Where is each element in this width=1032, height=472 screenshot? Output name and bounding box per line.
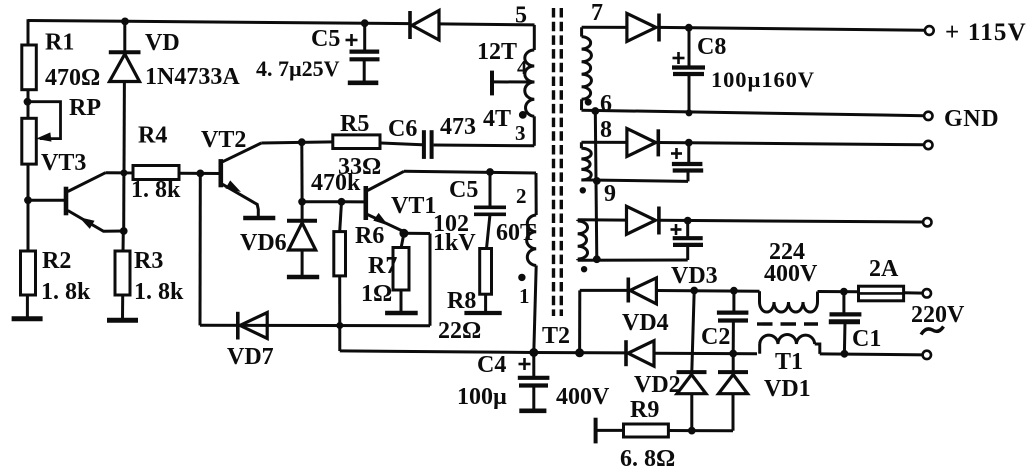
wire VD4 to choke <box>654 352 757 356</box>
wire VT2 base down to VD7 <box>199 173 202 325</box>
wire bottom rail <box>340 351 534 353</box>
potentiometer RP <box>22 118 37 164</box>
wire R6 bottom <box>338 276 341 351</box>
wire top rail left <box>28 21 410 24</box>
svg-text:VD2: VD2 <box>634 372 681 398</box>
capacitor C6 <box>422 130 426 159</box>
svg-text:1. 8k: 1. 8k <box>41 279 91 305</box>
wire VT3 collector to R4 <box>106 171 135 174</box>
choke T1 top winding <box>758 291 761 302</box>
plus C5 <box>346 39 358 42</box>
node top rail / C5 <box>361 20 368 27</box>
svg-text:12T: 12T <box>477 39 517 65</box>
svg-text:1N4733A: 1N4733A <box>145 64 240 90</box>
phase dot 4T <box>519 112 526 119</box>
svg-text:VD4: VD4 <box>622 310 669 336</box>
node R6 top <box>338 198 345 205</box>
svg-text:R7: R7 <box>368 253 397 279</box>
resistor R3 <box>122 231 125 253</box>
winding 12T <box>525 50 535 82</box>
svg-text:100µ: 100µ <box>457 384 507 410</box>
wire diode1 to +115V <box>659 27 925 30</box>
wire R4 to VT2 base <box>179 172 220 175</box>
wire VD7 line <box>200 324 430 327</box>
svg-text:T2: T2 <box>542 323 570 349</box>
wire left vertical top <box>27 19 30 46</box>
wire pin2 corner down <box>535 173 538 215</box>
wire R7 to ground <box>400 290 403 311</box>
resistor R1 <box>22 45 37 90</box>
svg-text:R5: R5 <box>340 111 369 137</box>
wire row2 return <box>581 180 688 182</box>
terminal 220V bottom <box>923 351 931 359</box>
winding 8-9 <box>580 142 583 148</box>
node VT3 base <box>25 197 32 204</box>
svg-text:C5: C5 <box>449 177 478 203</box>
svg-text:R4: R4 <box>138 123 167 149</box>
svg-text:1: 1 <box>519 284 530 308</box>
wire pin row3 top <box>578 218 627 221</box>
terminal out3 <box>923 218 931 226</box>
wire pin7 to diode <box>582 26 627 29</box>
svg-text:1. 8k: 1. 8k <box>131 177 181 203</box>
wire R9 rail right <box>692 429 733 432</box>
svg-text:8: 8 <box>600 117 612 143</box>
rectifier diode row1 <box>627 13 656 41</box>
resistor R9 <box>624 424 669 437</box>
zener diode VD 1N4733A <box>123 21 126 53</box>
winding3 <box>576 220 579 221</box>
svg-text:400V: 400V <box>764 261 818 287</box>
ground R7 <box>385 311 418 316</box>
svg-text:+ 115V: + 115V <box>945 19 1027 46</box>
transistor VT1 <box>363 186 368 220</box>
svg-text:C2: C2 <box>701 324 730 350</box>
wire emitter node right <box>404 232 430 235</box>
resistor R8 <box>480 249 492 295</box>
diode VD7 <box>236 312 240 340</box>
node VT2 base <box>197 170 204 177</box>
capacitor row3 <box>686 221 689 239</box>
svg-text:22Ω: 22Ω <box>438 318 481 344</box>
tap pin4 <box>493 80 534 83</box>
phase dot 60T <box>519 274 525 280</box>
wire pin3 corner <box>533 116 536 146</box>
rectifier diode row2 <box>627 129 656 157</box>
wire to VT1 base <box>342 200 365 203</box>
phase dot winding3 <box>581 267 586 272</box>
svg-text:9: 9 <box>604 181 616 207</box>
choke core dashes <box>757 322 818 325</box>
phase dot winding8-9 <box>580 188 585 193</box>
svg-text:4T: 4T <box>483 106 511 132</box>
svg-text:220V: 220V <box>911 302 965 328</box>
node row3 return / pin9 line <box>593 256 600 263</box>
svg-text:VD3: VD3 <box>671 263 718 289</box>
svg-text:7: 7 <box>591 0 603 26</box>
svg-text:1kV: 1kV <box>433 230 476 256</box>
node R6/VD7 line <box>337 323 343 329</box>
node C5 102 top <box>487 169 494 176</box>
diode VD1 <box>732 354 735 373</box>
node C2 bottom <box>730 350 737 357</box>
wire VD to emitter node <box>122 173 125 232</box>
terminal bar R9 <box>594 418 598 444</box>
wire fuse to terminal <box>904 291 923 294</box>
wire pin8 to diode <box>581 141 627 144</box>
rectifier diode row3 <box>627 206 656 234</box>
fuse 2A <box>859 286 904 301</box>
transistor VT2 <box>219 159 224 187</box>
svg-text:VD7: VD7 <box>227 344 274 370</box>
capacitor C8 <box>688 28 691 68</box>
resistor R4 <box>133 166 179 180</box>
winding 7-6 <box>580 27 583 36</box>
svg-text:RP: RP <box>69 95 101 121</box>
capacitor C1 <box>842 292 845 315</box>
node pin9 <box>593 178 600 185</box>
node R9 rail / VD2 <box>688 427 695 434</box>
ground R3 <box>107 318 138 323</box>
diode VD2 <box>692 291 694 373</box>
svg-text:VT2: VT2 <box>201 127 246 153</box>
wire VT2 collector rail <box>261 142 333 143</box>
node VD / R4 wire <box>121 170 127 176</box>
terminal 220V top <box>923 289 931 297</box>
svg-text:2A: 2A <box>869 256 899 282</box>
diode VD4 <box>624 340 628 366</box>
svg-text:R3: R3 <box>134 248 163 274</box>
svg-text:4. 7µ25V: 4. 7µ25V <box>256 56 340 81</box>
svg-text:1Ω: 1Ω <box>361 281 392 307</box>
phase dot winding7-6 <box>585 99 591 105</box>
wire pin6 to pin9 <box>595 111 597 259</box>
node VT2 collector / VD6 <box>298 139 305 146</box>
svg-text:4: 4 <box>517 57 527 79</box>
diode VD3 <box>626 278 630 303</box>
node VD2 top <box>691 287 698 294</box>
wire bridge left vertical <box>578 290 581 352</box>
svg-text:3: 3 <box>515 121 526 145</box>
svg-text:R2: R2 <box>42 248 71 274</box>
wire R9 left <box>596 429 624 432</box>
svg-text:C1: C1 <box>852 326 881 352</box>
plus C4 <box>519 363 531 366</box>
svg-text:VT3: VT3 <box>41 150 86 176</box>
svg-text:470k: 470k <box>311 170 361 196</box>
node VT1 emitter <box>400 229 408 237</box>
svg-text:400V: 400V <box>556 384 610 410</box>
capacitor row2 <box>687 143 690 164</box>
wire RP wiper <box>28 102 61 139</box>
choke T1 bottom winding <box>758 344 761 354</box>
wire choke to C1 bottom <box>820 354 926 355</box>
wire VD3 to choke <box>656 289 759 293</box>
wire R8 bottom <box>484 294 487 311</box>
svg-text:470Ω: 470Ω <box>45 65 100 91</box>
svg-text:VT1: VT1 <box>391 193 436 219</box>
wire emitter to R7 <box>401 233 404 248</box>
svg-text:60T: 60T <box>496 220 536 246</box>
wire bottom rail to bridge <box>534 351 626 354</box>
wire GND line <box>582 110 925 116</box>
wire row3 return <box>578 259 688 262</box>
terminal bar C5 <box>348 81 379 86</box>
capacitor C5 102 1kV <box>489 172 492 207</box>
svg-text:473: 473 <box>440 114 476 140</box>
ground VT2 emitter <box>243 216 275 221</box>
node cap3 top <box>684 217 691 224</box>
wire RP to VT3 base node <box>27 164 30 253</box>
diode on top rail <box>408 11 412 39</box>
node cap2 top <box>685 139 692 146</box>
svg-text:VD1: VD1 <box>764 376 811 402</box>
svg-text:C8: C8 <box>697 34 726 60</box>
node VD6 top <box>299 198 306 205</box>
node GND/C8 <box>686 110 692 116</box>
capacitor C5 4.7u top-left <box>363 23 366 49</box>
svg-text:C6: C6 <box>388 116 417 142</box>
diode VD6 <box>301 202 304 221</box>
node GND/pin6 <box>592 108 599 115</box>
svg-text:GND: GND <box>944 106 999 132</box>
wire node to VT1 base wire <box>302 200 343 203</box>
resistor R2 <box>26 295 29 318</box>
svg-text:6. 8Ω: 6. 8Ω <box>620 446 675 472</box>
wire collector node down <box>300 142 303 202</box>
node C2 top <box>731 287 738 294</box>
wire diode2 to terminal <box>658 143 924 145</box>
wire VT1 collector rail to pin2 <box>404 171 536 173</box>
node VT3 emitter / R3 <box>120 228 127 235</box>
resistor R5 <box>333 135 380 149</box>
wire box right edge down <box>429 234 432 326</box>
core dashed lines <box>552 8 555 316</box>
capacitor C2 <box>732 291 735 313</box>
terminal bar C4 <box>519 408 546 413</box>
terminal GND <box>924 112 932 120</box>
wire C6 to pin3 <box>434 144 535 148</box>
winding 4T <box>525 82 535 116</box>
node top rail / VD <box>122 18 129 25</box>
resistor R7 <box>393 248 409 291</box>
wire choke to C1 top <box>818 290 860 293</box>
svg-text:R9: R9 <box>630 397 659 423</box>
svg-text:C5: C5 <box>311 26 340 52</box>
svg-text:5: 5 <box>515 3 527 29</box>
ground VD6 <box>287 275 319 280</box>
svg-text:C4: C4 <box>477 352 506 378</box>
terminal bar R8 <box>464 311 501 315</box>
wire diode3 to terminal <box>659 220 923 222</box>
plus cap3 <box>671 228 682 231</box>
wire pin5 corner down <box>533 25 536 50</box>
node pin1 / C4 <box>530 349 538 357</box>
node bottom rail / bridge-left <box>576 349 584 357</box>
node R1/RP wiper <box>24 98 31 105</box>
svg-text:100µ160V: 100µ160V <box>711 67 815 92</box>
svg-text:VD6: VD6 <box>240 230 287 256</box>
node C1 bottom <box>841 350 848 357</box>
wire R1 to RP <box>27 90 30 120</box>
wire pin1 down <box>534 266 536 353</box>
svg-text:VD: VD <box>145 30 180 56</box>
svg-text:2: 2 <box>516 184 527 208</box>
resistor R6 <box>340 202 342 232</box>
svg-text:T1: T1 <box>775 349 803 375</box>
plus C8 <box>673 57 685 60</box>
node C1 top <box>841 288 848 295</box>
wire top rail right of diode <box>439 24 535 25</box>
transistor VT3 <box>28 199 64 202</box>
node C8 top <box>685 24 692 31</box>
svg-text:1. 8k: 1. 8k <box>134 279 184 305</box>
ground R2 <box>12 316 43 321</box>
svg-text:R6: R6 <box>355 223 384 249</box>
svg-text:R8: R8 <box>447 288 476 314</box>
svg-text:6: 6 <box>600 91 612 117</box>
wire R5 to C6 <box>380 143 422 145</box>
terminal +115V <box>925 26 934 35</box>
terminal out2 <box>924 141 932 149</box>
plus cap2 <box>671 152 682 155</box>
wire R9 to VD2 node <box>668 429 691 432</box>
capacitor C4 100u 400V <box>532 353 535 378</box>
wire bridge top rail <box>580 289 629 292</box>
svg-text:R1: R1 <box>45 30 74 56</box>
winding 60T <box>527 215 537 266</box>
